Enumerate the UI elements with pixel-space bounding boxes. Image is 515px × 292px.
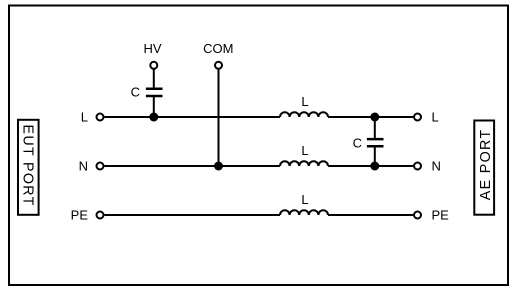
capacitor C2 — [353, 135, 384, 150]
wire C2 upper lead — [374, 117, 376, 138]
svg-text:L: L — [301, 94, 308, 109]
svg-text:AE PORT: AE PORT — [478, 129, 494, 201]
terminal L (EUT side) — [81, 110, 104, 125]
svg-text:HV: HV — [143, 41, 161, 56]
svg-text:EUT PORT: EUT PORT — [20, 125, 36, 207]
terminal N (AE side) — [414, 159, 441, 174]
svg-text:PE: PE — [71, 208, 89, 223]
node junction on L line above C2 — [370, 113, 379, 122]
wire L line left segment — [105, 116, 281, 118]
terminal HV — [143, 41, 161, 69]
wire COM to N line — [218, 69, 220, 166]
terminal L (AE side) — [414, 110, 439, 125]
svg-text:C: C — [353, 135, 362, 150]
svg-text:L: L — [301, 143, 308, 158]
wire PE line right segment — [328, 214, 413, 216]
terminal N (EUT side) — [79, 159, 104, 174]
svg-text:COM: COM — [203, 41, 233, 56]
AE port label — [474, 121, 494, 215]
wire capacitor C1 to L line — [153, 97, 155, 117]
svg-text:C: C — [131, 85, 140, 100]
wire C2 lower lead — [374, 147, 376, 166]
node junction on L line below C1 — [149, 113, 158, 122]
svg-text:L: L — [301, 192, 308, 207]
terminal PE (AE side) — [414, 208, 449, 223]
inductor L on N line — [280, 143, 328, 166]
wire PE line left segment — [105, 214, 281, 216]
svg-text:PE: PE — [432, 208, 450, 223]
svg-text:N: N — [432, 159, 441, 174]
wire HV to capacitor C1 — [153, 69, 155, 87]
svg-text:N: N — [79, 159, 88, 174]
wire N line right segment — [328, 165, 413, 167]
terminal COM — [203, 41, 233, 69]
inductor L on PE line — [280, 192, 328, 215]
capacitor C1 — [131, 85, 163, 100]
svg-text:L: L — [432, 110, 439, 125]
wire L line right segment — [328, 116, 413, 118]
node junction on N line below C2 — [370, 162, 379, 171]
EUT port label — [18, 120, 39, 215]
terminal PE (EUT side) — [71, 208, 104, 223]
wire N line left segment — [105, 165, 281, 167]
node junction on N line below COM — [214, 162, 223, 171]
inductor L on L line — [280, 94, 328, 117]
svg-text:L: L — [81, 110, 88, 125]
